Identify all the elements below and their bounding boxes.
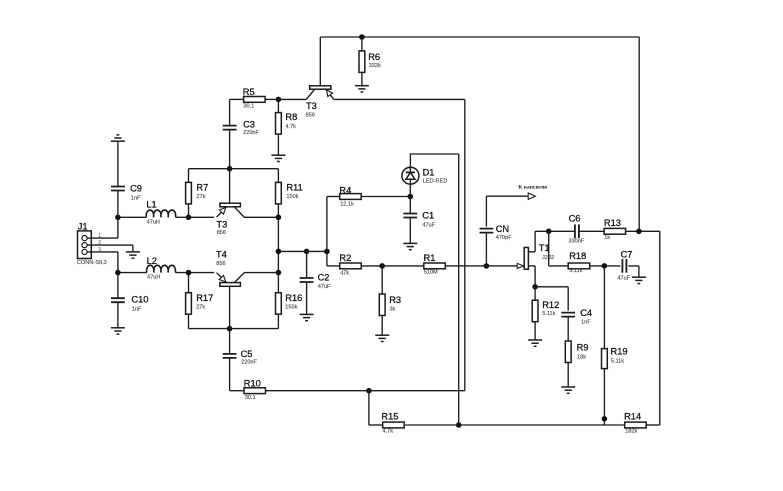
capacitor C5 (220nF) — [223, 349, 258, 365]
svg-text:R14: R14 — [624, 411, 641, 421]
svg-text:C7: C7 — [621, 249, 633, 259]
svg-text:12.1k: 12.1k — [340, 202, 354, 208]
wire right vertical from top rail to R13 node — [638, 37, 640, 231]
wire R4 to D1/C1 node — [361, 196, 410, 198]
svg-text:30.1: 30.1 — [245, 395, 256, 401]
ground below C2 — [300, 314, 314, 320]
wire R15 to D1 feedback node — [404, 424, 459, 426]
svg-text:LED-RED: LED-RED — [423, 179, 448, 185]
transistor T4 (856) — [216, 250, 244, 329]
wire C5 to R10 — [230, 390, 244, 392]
wire bottom rail to R14 — [459, 424, 625, 426]
svg-text:C6: C6 — [569, 214, 581, 224]
node R4 / D1 / C1 — [408, 194, 414, 200]
wire L1 node to emitter — [176, 216, 215, 218]
ground right of C7 — [632, 277, 646, 283]
wire C10 to ground — [117, 302, 119, 328]
wire R6 to ground — [361, 72, 363, 85]
wire main top rail — [320, 36, 639, 38]
wire vertical to R4 — [327, 196, 340, 198]
wire box1 rail to R7 — [188, 169, 190, 183]
wire to R18 — [549, 265, 569, 267]
node R18 / C7 / R19 — [602, 263, 608, 269]
wire C7 node down to R19 — [603, 266, 605, 349]
wire T4 base rail to C5 — [229, 329, 231, 354]
node R15 / D1 feedback — [456, 422, 462, 428]
wire C3 top to R5 — [230, 98, 244, 100]
node top rail / R6 junction — [359, 34, 365, 40]
wire emitter feedback vertical — [464, 99, 466, 390]
transistor T3 (middle, 856) — [216, 169, 244, 236]
LED D1 (LED-RED) — [402, 167, 447, 196]
wire T3 emitter row — [334, 98, 465, 100]
wire top rail to R6 — [361, 37, 363, 51]
wire D1 feedback vertical — [458, 154, 460, 425]
resistor R15 (4.7k) — [381, 411, 404, 434]
node collector vertical / mid rail — [276, 249, 282, 255]
svg-text:4.7k: 4.7k — [383, 428, 394, 434]
svg-text:150k: 150k — [285, 304, 297, 310]
svg-text:К капсюлю: К капсюлю — [518, 185, 548, 191]
transistor T3 (top, 856) — [306, 37, 334, 118]
svg-text:R12: R12 — [542, 300, 559, 310]
wire L2 node to T4 emitter — [175, 272, 214, 274]
wire R3 node to R1 — [382, 265, 424, 267]
resistor R3 (3k) — [379, 294, 401, 316]
wire CN vertical bottom — [485, 233, 487, 266]
wire collector to R11 node — [244, 216, 278, 218]
svg-text:C2: C2 — [318, 273, 330, 283]
wire R13 to right edge — [626, 230, 660, 232]
svg-text:R11: R11 — [286, 183, 302, 193]
connector J1 (CONN-SIL3) — [77, 221, 107, 266]
wire box2 bottom rail — [189, 328, 279, 330]
wire J1 pin3 — [87, 252, 118, 273]
wire R5 row down to C3 — [229, 99, 231, 125]
wire source row to C4 branch — [535, 286, 568, 288]
svg-text:R17: R17 — [196, 293, 213, 303]
node R19 / bottom rail — [602, 416, 608, 422]
svg-text:R1: R1 — [424, 253, 436, 263]
resistor R2 (47k) — [339, 253, 361, 277]
node R16 / T4 collector — [276, 270, 282, 276]
wire node to R3 — [381, 266, 383, 294]
svg-text:332k: 332k — [369, 63, 381, 69]
svg-text:47uF: 47uF — [422, 223, 435, 229]
wire box1 top rail — [189, 168, 279, 170]
svg-text:856: 856 — [306, 112, 315, 118]
ground below C10 — [111, 328, 125, 334]
node R1 / CN / gate — [484, 263, 490, 269]
svg-text:R3: R3 — [389, 295, 401, 305]
svg-text:L2: L2 — [147, 256, 157, 266]
wire right edge vertical down to R14 — [659, 231, 661, 425]
svg-text:47uF: 47uF — [617, 275, 630, 281]
resistor R12 (5.11k) — [532, 300, 559, 322]
resistor R10 (30.1) — [244, 378, 266, 401]
svg-text:27k: 27k — [196, 194, 205, 200]
wire C2 to ground — [306, 282, 308, 314]
svg-text:1nF: 1nF — [131, 196, 141, 202]
wire node to C1 — [409, 197, 411, 214]
svg-text:30.1: 30.1 — [243, 104, 254, 110]
wire R3 to ground — [381, 316, 383, 336]
wire C7 to ground stub — [628, 266, 639, 277]
wire C4 branch down — [567, 287, 569, 311]
svg-text:330nF: 330nF — [568, 239, 584, 245]
wire R19 to bottom rail — [603, 369, 605, 425]
svg-text:C9: C9 — [130, 184, 142, 194]
svg-text:R15: R15 — [381, 411, 398, 421]
svg-text:J1: J1 — [78, 221, 88, 231]
wire J1 pin2 — [87, 245, 133, 252]
wire R17 to box2 rail — [188, 314, 190, 328]
svg-text:C4: C4 — [580, 308, 592, 318]
wire source node to R12 — [534, 287, 536, 300]
svg-text:220nF: 220nF — [241, 359, 257, 365]
svg-text:R10: R10 — [244, 378, 261, 388]
node R5/R8/T3 junction — [276, 97, 282, 103]
ground below R8 — [271, 155, 285, 161]
svg-text:R16: R16 — [285, 293, 302, 303]
node mid rail / R4-R2 vertical — [324, 249, 330, 255]
wire collector node to R16 — [277, 273, 279, 293]
JFET T1 (J202) — [517, 231, 554, 286]
arrow to capsule (K kapsyulyu) — [518, 185, 548, 200]
wire C4 to R9 — [567, 317, 569, 341]
resistor R7 (27k) — [186, 182, 209, 204]
svg-text:R19: R19 — [611, 347, 628, 357]
svg-text:47k: 47k — [340, 270, 349, 276]
svg-text:5.11k: 5.11k — [542, 311, 555, 317]
wire C1 to ground — [409, 218, 411, 244]
wire box1 rail to R11 — [277, 169, 279, 183]
svg-text:R7: R7 — [196, 183, 208, 193]
svg-text:470pF: 470pF — [496, 235, 512, 241]
svg-text:856: 856 — [216, 261, 225, 267]
capacitor C6 (330nF) — [568, 214, 584, 245]
resistor R14 (182k) — [624, 411, 646, 434]
resistor R8 (4.7k) — [276, 112, 298, 134]
wire R5 to node — [265, 98, 278, 100]
inductor L1 (47uH) — [146, 199, 175, 225]
svg-text:L1: L1 — [146, 199, 156, 209]
svg-text:856: 856 — [217, 230, 226, 236]
svg-text:510M: 510M — [424, 270, 438, 276]
resistor R4 (12.1k) — [339, 186, 361, 208]
wire node to R8 — [277, 99, 279, 112]
capacitor CN (470pF) — [480, 224, 513, 241]
wire vertical to R2 — [327, 265, 340, 267]
svg-text:C3: C3 — [243, 120, 255, 130]
svg-text:27k: 27k — [196, 305, 205, 311]
svg-text:T4: T4 — [216, 250, 227, 260]
wire R2 to R3 node — [361, 265, 382, 267]
ground below R12 — [528, 340, 542, 346]
wire R18 to C7 node — [590, 265, 605, 267]
capacitor C2 (47uF) — [300, 273, 331, 290]
ground below R3 — [375, 335, 389, 341]
node R11 / T3 collector — [276, 215, 282, 221]
wire D1 top elbow — [410, 154, 458, 167]
resistor R6 (332k) — [359, 51, 381, 73]
svg-text:CN: CN — [496, 224, 509, 234]
wire R10 node down to R15 — [368, 391, 370, 425]
wire CN top elbow / capsule line — [486, 195, 527, 197]
wire R14 to right edge — [647, 424, 660, 426]
node mid rail / C2 — [304, 249, 310, 255]
svg-text:47uH: 47uH — [147, 219, 160, 225]
node R7 / L1 row — [186, 215, 192, 221]
svg-text:150k: 150k — [286, 194, 298, 200]
svg-text:3k: 3k — [389, 307, 395, 313]
wire C5 to R10 — [229, 358, 231, 391]
wire R5 node to T3 collector — [278, 98, 306, 100]
svg-text:1nF: 1nF — [581, 319, 591, 325]
wire T4 collector to R16 node — [244, 272, 278, 274]
inductor L2 (47uH) — [147, 256, 176, 281]
svg-text:1k: 1k — [604, 235, 610, 241]
resistor R9 (18k) — [565, 341, 588, 363]
resistor R1 (510M) — [424, 253, 446, 276]
svg-text:R18: R18 — [569, 251, 586, 261]
capacitor C3 (220nF) — [223, 120, 260, 136]
svg-text:5.11k: 5.11k — [611, 359, 624, 365]
wire R7 to L1 row — [188, 204, 190, 217]
capacitor C10 (1nF) — [111, 294, 148, 312]
svg-text:R5: R5 — [243, 87, 255, 97]
wire collector vertical T3-T4 — [277, 217, 279, 272]
svg-text:C1: C1 — [422, 211, 434, 221]
node R17 / L2 row — [186, 270, 192, 276]
node T4 base / box2 rail — [227, 326, 233, 332]
ground below R9 — [561, 387, 575, 393]
capacitor C9 (1nF) — [111, 184, 142, 202]
svg-text:47uH: 47uH — [147, 275, 160, 281]
wire C6 to R13 — [579, 230, 604, 232]
wire ground to C9 — [117, 141, 119, 186]
node T1 source / R12 / C4 — [532, 284, 538, 290]
wire C3 to box1 top rail — [229, 130, 231, 169]
wire drain row to C6 — [535, 230, 575, 232]
resistor R11 (150k) — [276, 182, 303, 204]
wire R9 to ground — [567, 363, 569, 388]
svg-text:1nF: 1nF — [132, 306, 142, 312]
node C3 / box1 top rail — [227, 166, 233, 172]
resistor R13 (1k) — [604, 218, 626, 241]
resistor R16 (150k) — [276, 293, 303, 315]
wire R11 to collector node — [277, 204, 279, 217]
node R10 / R15 branch — [366, 388, 372, 394]
svg-text:220nF: 220nF — [243, 130, 259, 136]
capacitor C1 (47uF) — [403, 211, 435, 229]
svg-text:C5: C5 — [241, 349, 253, 359]
wire mid rail to C2 — [306, 251, 308, 278]
wire R4/R2 left vertical — [326, 197, 328, 266]
svg-text:R2: R2 — [339, 253, 351, 263]
capacitor C4 (1nF) — [561, 308, 592, 326]
svg-text:T3: T3 — [216, 220, 227, 230]
wire R1 to CN node — [445, 265, 486, 267]
wire to R15 — [369, 424, 383, 426]
node L2 / C10 / pin3 — [115, 270, 121, 276]
wire C10 node to L2 — [118, 272, 147, 274]
svg-text:R9: R9 — [577, 343, 589, 353]
resistor R5 (30.1) — [243, 87, 265, 110]
ground above C9 (inverted) — [111, 135, 125, 141]
ground below C1 — [403, 243, 417, 249]
wire R10 to node — [266, 390, 369, 392]
node drain row / R18 branch — [546, 229, 552, 235]
resistor R17 (27k) — [186, 293, 214, 315]
wire J1 pin1 — [87, 217, 118, 238]
svg-text:R8: R8 — [285, 112, 297, 122]
wire C9 node to L1 — [118, 216, 146, 218]
svg-text:4.7k: 4.7k — [285, 124, 296, 130]
resistor R19 (5.11k) — [602, 347, 628, 369]
svg-text:R6: R6 — [368, 52, 380, 62]
resistor R18 (5.11k) — [568, 251, 590, 274]
svg-text:R4: R4 — [339, 186, 351, 196]
wire node to C10 — [117, 273, 119, 299]
wire R10 row to emitter feedback — [369, 390, 465, 392]
wire R8 to ground — [277, 134, 279, 155]
svg-text:C10: C10 — [131, 294, 148, 304]
svg-text:T3: T3 — [306, 101, 317, 111]
svg-text:CONN-SIL3: CONN-SIL3 — [77, 260, 107, 266]
ground below R6 — [355, 86, 369, 92]
svg-text:47uF: 47uF — [318, 284, 331, 290]
wire drain node down to R18 — [548, 231, 550, 266]
wire C9 to L1 node — [117, 191, 119, 218]
svg-text:R13: R13 — [604, 218, 621, 228]
wire L2 node to R17 — [188, 273, 190, 293]
wire gate wire to T1 — [486, 265, 517, 267]
wire R12 to ground — [534, 322, 536, 340]
node R13 / feedback vertical — [636, 229, 642, 235]
node L1 / C9 / pin1 — [115, 215, 121, 221]
node R2 / R3 / R1 — [379, 263, 385, 269]
capacitor C7 (47uF) — [617, 249, 632, 281]
wire mid rail to C2/R4 branch — [278, 250, 327, 252]
svg-text:D1: D1 — [423, 168, 435, 178]
svg-text:182k: 182k — [625, 428, 637, 434]
wire CN vertical top — [485, 196, 487, 226]
svg-text:18k: 18k — [577, 355, 586, 361]
wire node to C7 — [604, 265, 620, 267]
svg-text:5.11k: 5.11k — [569, 268, 582, 274]
ground at J1 pin2 — [126, 252, 140, 258]
wire R16 to box2 rail — [277, 314, 279, 328]
